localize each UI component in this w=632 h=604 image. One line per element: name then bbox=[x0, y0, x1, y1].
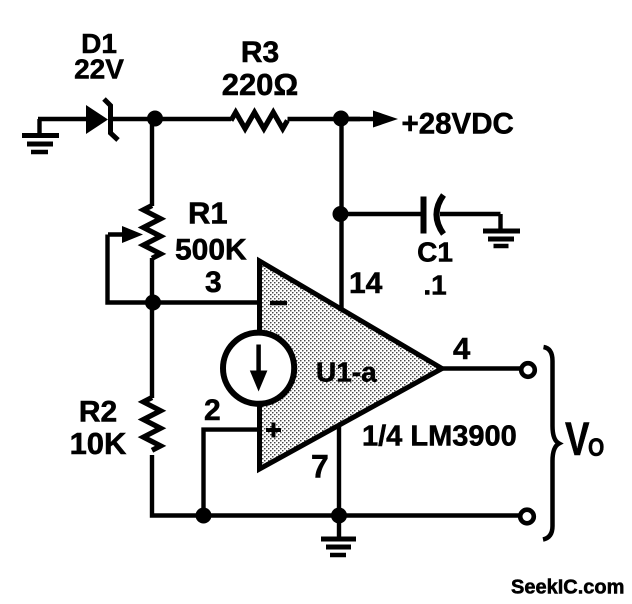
brace for Vo bbox=[543, 347, 559, 540]
svg-text:500K: 500K bbox=[175, 234, 247, 267]
minus input mark bbox=[270, 301, 287, 306]
output terminal (bottom) bbox=[520, 510, 534, 524]
wire: ground to diode anode bbox=[38, 117, 88, 121]
svg-text:.1: .1 bbox=[423, 270, 446, 301]
svg-text:22V: 22V bbox=[74, 54, 124, 85]
svg-text:220Ω: 220Ω bbox=[222, 67, 299, 102]
svg-text:V: V bbox=[565, 413, 589, 465]
wire: R1 wiper down and to pin 3 bbox=[108, 235, 260, 303]
junction node A (diode/R1) bbox=[147, 111, 163, 127]
svg-text:O: O bbox=[588, 433, 604, 461]
plus input mark bbox=[266, 423, 281, 438]
svg-text:7: 7 bbox=[311, 449, 329, 485]
junction node C (C1 tap) bbox=[333, 206, 349, 222]
capacitor C1 bbox=[424, 195, 444, 234]
wire: node A down to R1 bbox=[150, 119, 154, 206]
wire: pin 7 bbox=[337, 424, 341, 516]
svg-text:1/4 LM3900: 1/4 LM3900 bbox=[362, 421, 517, 453]
wire: node C to C1 bbox=[341, 212, 421, 216]
svg-text:2: 2 bbox=[204, 394, 221, 427]
output terminal (top) bbox=[521, 363, 535, 377]
potentiometer R1 bbox=[108, 206, 161, 259]
svg-text:10K: 10K bbox=[70, 426, 127, 461]
svg-text:+28VDC: +28VDC bbox=[402, 108, 514, 141]
svg-text:C1: C1 bbox=[417, 237, 453, 268]
ground (C1) bbox=[483, 231, 520, 246]
resistor R3 bbox=[231, 112, 287, 128]
svg-text:3: 3 bbox=[205, 266, 222, 299]
junction node E (pin 2 / rail) bbox=[196, 508, 212, 524]
junction node F (pin 7 / rail) bbox=[331, 508, 347, 524]
wire: R3 to +28VDC node bbox=[288, 117, 361, 121]
wire: node D down to R2 bbox=[150, 303, 154, 399]
wire: R1 bottom to node D bbox=[150, 258, 154, 303]
zener diode D1 bbox=[86, 99, 118, 140]
ground (top left) bbox=[22, 119, 59, 152]
arrow to +28VDC bbox=[341, 111, 398, 128]
wire: R2 bottom to rail bbox=[152, 455, 520, 516]
label Vo bbox=[565, 413, 604, 465]
svg-text:R1: R1 bbox=[188, 196, 228, 231]
wire: diode to R3 bbox=[112, 117, 231, 121]
junction node B (+28VDC) bbox=[333, 111, 349, 127]
svg-text:R3: R3 bbox=[241, 36, 279, 69]
wire: output pin 4 bbox=[442, 366, 520, 370]
resistor R2 bbox=[143, 398, 160, 451]
junction node D (pin 3 net) bbox=[145, 295, 161, 311]
svg-text:4: 4 bbox=[453, 331, 471, 366]
svg-text:R2: R2 bbox=[79, 396, 117, 429]
wire: pin 2 bbox=[204, 430, 260, 516]
svg-text:SeekIC.com: SeekIC.com bbox=[511, 577, 624, 599]
current source (Norton) symbol bbox=[223, 333, 294, 404]
wire: C1 to ground bbox=[440, 214, 501, 229]
op-amp U1-a triangle bbox=[260, 261, 443, 469]
svg-text:U1-a: U1-a bbox=[316, 357, 377, 388]
wire: pin 14 vertical bbox=[339, 119, 343, 309]
ground (bottom) bbox=[321, 516, 356, 556]
svg-text:14: 14 bbox=[349, 267, 383, 300]
